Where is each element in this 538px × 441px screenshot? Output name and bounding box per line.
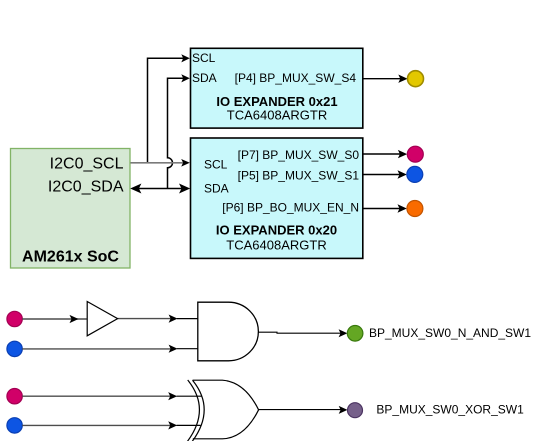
svg-text:I2C0_SCL: I2C0_SCL xyxy=(50,155,124,172)
svg-text:[P7] BP_MUX_SW_S0: [P7] BP_MUX_SW_S0 xyxy=(238,148,360,162)
svg-text:SDA: SDA xyxy=(204,181,229,195)
svg-text:SDA: SDA xyxy=(192,71,217,85)
svg-text:IO EXPANDER 0x20: IO EXPANDER 0x20 xyxy=(216,223,337,238)
svg-text:SCL: SCL xyxy=(192,51,216,65)
svg-text:TCA6408ARGTR: TCA6408ARGTR xyxy=(226,238,326,253)
svg-text:TCA6408ARGTR: TCA6408ARGTR xyxy=(227,108,327,123)
svg-text:BP_MUX_SW0_N_AND_SW1: BP_MUX_SW0_N_AND_SW1 xyxy=(369,326,531,340)
svg-text:BP_MUX_SW0_XOR_SW1: BP_MUX_SW0_XOR_SW1 xyxy=(376,403,524,417)
svg-text:[P5] BP_MUX_SW_S1: [P5] BP_MUX_SW_S1 xyxy=(238,169,360,183)
svg-text:I2C0_SDA: I2C0_SDA xyxy=(48,178,124,195)
svg-text:[P4] BP_MUX_SW_S4: [P4] BP_MUX_SW_S4 xyxy=(235,71,357,85)
svg-text:AM261x SoC: AM261x SoC xyxy=(22,249,119,266)
svg-text:SCL: SCL xyxy=(204,158,228,172)
svg-text:[P6] BP_BO_MUX_EN_N: [P6] BP_BO_MUX_EN_N xyxy=(222,200,359,214)
